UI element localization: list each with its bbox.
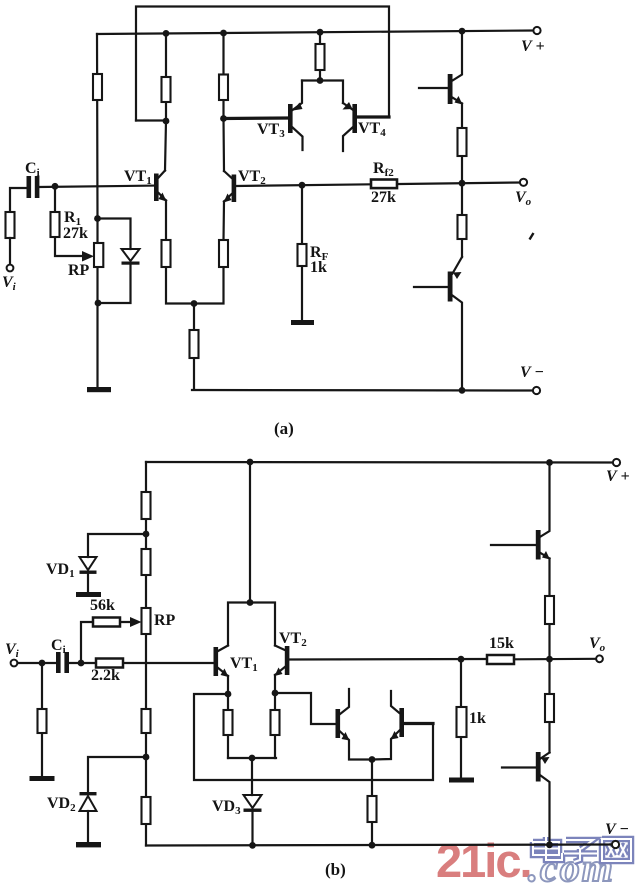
svg-text:VD1: VD1 xyxy=(46,561,75,580)
wire output column (b) xyxy=(548,559,550,753)
wire diff top (b) xyxy=(228,462,275,646)
svg-text:V +: V + xyxy=(521,38,545,55)
transistor lower output (a) xyxy=(448,272,453,302)
node VT1 emitter (b) xyxy=(225,691,232,698)
node x98-y303 xyxy=(95,300,102,307)
svg-text:Ci: Ci xyxy=(51,637,66,656)
wire box left (b) xyxy=(194,694,433,780)
wire upper output column (a) xyxy=(461,104,463,258)
terminal Vi (a) xyxy=(7,265,14,272)
node rail-x462 xyxy=(459,28,466,35)
terminal V+ (b) xyxy=(613,459,620,466)
wire VT2 collector column xyxy=(222,33,225,171)
resistor tail (a) xyxy=(190,330,199,358)
node x223-y118 xyxy=(220,115,227,122)
diode (a) xyxy=(122,249,140,261)
terminal V- (a) xyxy=(533,387,540,394)
resistor above VT1 xyxy=(162,77,171,102)
ground input shunt (b) xyxy=(30,776,55,781)
svg-text:Ci: Ci xyxy=(25,160,40,179)
transistor Q3 (b) xyxy=(336,709,341,738)
svg-text:Vo: Vo xyxy=(515,189,532,208)
resistor 2.2k xyxy=(96,659,123,668)
node x42-y663 xyxy=(39,660,46,667)
node RF top xyxy=(299,182,306,189)
svg-text:Rf2: Rf2 xyxy=(373,160,394,179)
svg-text:V +: V + xyxy=(606,468,630,485)
V+ rail (a) xyxy=(97,31,533,35)
node rail-x320 xyxy=(317,29,324,36)
transistor upper output (b) xyxy=(536,530,541,560)
resistor above VT3/VT4 xyxy=(319,32,321,80)
transistor VT2 (a) xyxy=(232,175,237,203)
terminal V+ (a) xyxy=(533,27,540,34)
transistor VT3 (a) xyxy=(224,116,289,120)
svg-text:VT1: VT1 xyxy=(230,655,258,674)
diode VD2 xyxy=(88,757,146,792)
wire top feedback loop xyxy=(136,7,389,121)
diode VD3 xyxy=(244,795,262,808)
resistor above VT2 xyxy=(219,75,228,101)
svg-text:21ic.: 21ic. xyxy=(436,834,531,886)
wire VT2 base to output xyxy=(236,183,520,187)
svg-text:RP: RP xyxy=(68,262,90,279)
node rail-x223 xyxy=(220,30,227,37)
terminal Vi (b) xyxy=(11,660,18,667)
resistor left column 2 (b) xyxy=(142,549,151,575)
terminal Vo (a) xyxy=(520,179,527,186)
wire VT2 emitter (b) xyxy=(274,675,276,758)
diode (a) wire bottom xyxy=(98,265,131,304)
node tail xyxy=(191,300,198,307)
resistor top-left (a) xyxy=(93,74,102,100)
node VT2 emitter (b) xyxy=(272,690,279,697)
resistor RF xyxy=(301,185,303,320)
resistor below VT2 xyxy=(219,240,228,267)
node x166-y121 xyxy=(163,118,170,125)
node emitter join (b) xyxy=(249,755,256,762)
transistor VT4 (a) xyxy=(352,104,357,133)
node rail x250 (b) xyxy=(247,459,254,466)
wire left column (b) xyxy=(145,462,147,846)
wire left column (a) xyxy=(96,34,99,387)
wire VT1 emitter column xyxy=(166,201,194,304)
svg-text:V −: V − xyxy=(605,821,629,838)
wire 15k to Vo (b) xyxy=(514,658,596,661)
wire VT2 emitter to Q3 base xyxy=(275,693,336,724)
potentiometer RP (b) xyxy=(142,608,151,634)
transistor VT2 (b) xyxy=(285,646,290,675)
V- rail (b) xyxy=(146,845,612,846)
wire emitter join (b) xyxy=(228,758,276,795)
transistor VT1 (b) xyxy=(214,647,219,676)
node rail x549 (b) xyxy=(546,459,553,466)
resistor VT2 emitter (b) xyxy=(271,710,280,735)
svg-text:VT4: VT4 xyxy=(358,120,386,139)
svg-text:Vi: Vi xyxy=(2,274,17,293)
svg-text:VD2: VD2 xyxy=(47,795,76,814)
svg-text:2.2k: 2.2k xyxy=(91,667,120,684)
arrow RP wiper (b) xyxy=(130,617,142,627)
wire VT2 base to feedback (b) xyxy=(289,658,487,661)
node V- rail x549 (b) xyxy=(546,841,553,848)
node V- rail x462 xyxy=(459,387,466,394)
watermark wang glyph xyxy=(602,839,631,861)
resistor 1k (b) xyxy=(460,659,462,777)
wire VT2 emitter column xyxy=(194,202,224,304)
svg-text:VD3: VD3 xyxy=(212,798,241,817)
node R1 top xyxy=(52,183,59,190)
terminal Vo (b) xyxy=(596,655,603,662)
ground below RF xyxy=(291,320,314,325)
svg-text:RP: RP xyxy=(154,612,176,629)
svg-text:27k: 27k xyxy=(371,189,396,206)
transistor Q4 (b) xyxy=(399,708,404,737)
resistor Rf2 xyxy=(371,180,397,189)
svg-text:Vi: Vi xyxy=(5,641,20,660)
resistor left column 4 (b) xyxy=(142,797,151,824)
node diff top (b) xyxy=(247,599,254,606)
wire Vi to Ci xyxy=(18,662,57,664)
arrow RP wiper (a) xyxy=(82,251,94,262)
ground below VD1 xyxy=(76,592,101,597)
svg-text:V −: V − xyxy=(520,364,544,381)
transistor lower output (b) xyxy=(536,752,541,782)
resistor left column 1 (b) xyxy=(142,492,151,519)
ground below RP (a) xyxy=(87,387,111,392)
wire VT3/VT4 emitter bus xyxy=(302,81,343,104)
resistor below VT1 xyxy=(162,240,171,267)
svg-text:15k: 15k xyxy=(489,635,514,652)
svg-text:1k: 1k xyxy=(310,259,327,276)
svg-text:27k: 27k xyxy=(63,225,88,242)
capacitor Ci (a) xyxy=(27,176,32,198)
node x320-y80 xyxy=(317,77,324,84)
resistor 15k xyxy=(487,655,514,664)
node mirror tail rail (b) xyxy=(369,842,376,849)
node rail-x166 xyxy=(163,30,170,37)
wire VT1 collector column xyxy=(165,33,166,170)
node x146-y534 xyxy=(143,531,150,538)
resistor VT1 emitter (b) xyxy=(224,710,233,735)
terminal V- (b) xyxy=(612,841,619,848)
node VD3 rail (b) xyxy=(249,842,256,849)
resistor below Vo node (a) xyxy=(458,215,467,239)
node x146-y757 xyxy=(143,754,150,761)
svg-text:(a): (a) xyxy=(274,419,294,438)
svg-text:(b): (b) xyxy=(325,860,346,879)
potentiometer RP (a) xyxy=(94,243,103,267)
ground below 1k (b) xyxy=(449,778,474,783)
resistor output lower (b) xyxy=(545,694,554,722)
svg-text:Vo: Vo xyxy=(589,635,606,654)
resistor mirror tail (b) xyxy=(371,760,373,846)
ground below VD2 xyxy=(76,842,101,847)
node x81-y663 xyxy=(78,660,85,667)
scan speck xyxy=(530,233,534,240)
resistor left column 3 (b) xyxy=(142,709,151,733)
watermark dian glyph xyxy=(533,837,562,860)
resistor 56k xyxy=(81,622,133,663)
node output-wire x462 xyxy=(459,180,466,187)
svg-text:VT3: VT3 xyxy=(257,121,285,140)
diode (a) wire top branch xyxy=(98,219,131,250)
transistor VT1 (a) xyxy=(154,174,159,202)
resistor input (a) xyxy=(6,212,15,238)
capacitor Ci (b) xyxy=(56,652,61,673)
wire loop to VT1 collector xyxy=(136,119,166,121)
wire input left (a) xyxy=(10,188,27,212)
wire Ci to VT1 base (b) xyxy=(69,662,214,664)
node feedback x461 (b) xyxy=(458,656,465,663)
svg-text:VT2: VT2 xyxy=(279,630,307,649)
svg-text:VT2: VT2 xyxy=(238,168,266,187)
node x97-y218 xyxy=(94,215,101,222)
svg-text:1k: 1k xyxy=(469,710,486,727)
wire Ci to VT1 base xyxy=(39,186,154,187)
wire VT1 emitter (b) xyxy=(227,676,229,758)
wire tail xyxy=(192,304,533,391)
node mirror tail (b) xyxy=(369,756,376,763)
wire to Vi terminal (a) xyxy=(9,238,11,264)
resistor R1 xyxy=(55,186,88,256)
resistor input shunt (b) xyxy=(41,663,43,776)
resistor above Vo node (a) xyxy=(458,128,467,156)
transistor upper output (a) xyxy=(448,74,453,104)
watermark zi glyph xyxy=(564,840,597,862)
svg-text:56k: 56k xyxy=(90,597,115,614)
V+ rail (b) xyxy=(146,461,613,464)
svg-text:VT1: VT1 xyxy=(124,168,152,187)
resistor output upper (b) xyxy=(545,596,554,624)
node Vo column (b) xyxy=(546,656,553,663)
diode VD1 xyxy=(88,534,146,557)
